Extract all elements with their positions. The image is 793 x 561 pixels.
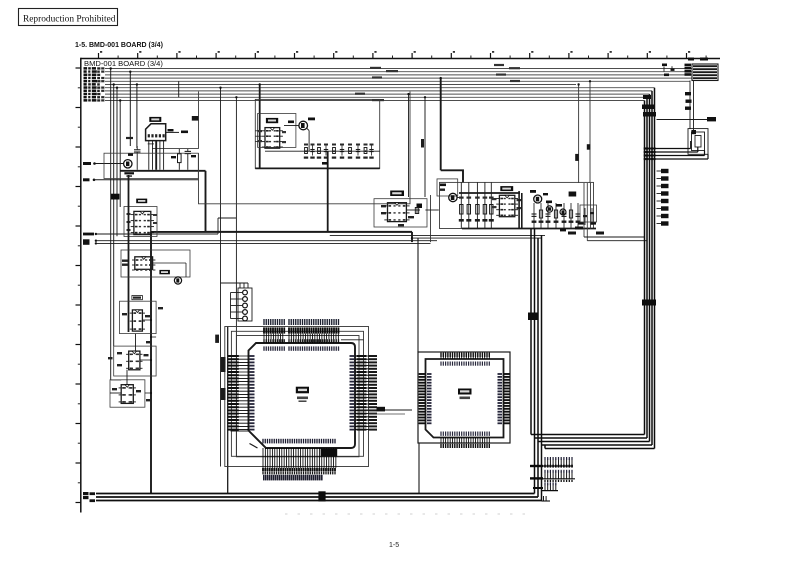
IC103 (135, 257, 153, 270)
mid bus wire (412, 237, 542, 239)
nested box feed wires (645, 148, 691, 150)
IC201 bottom net names (263, 475, 265, 481)
wire drop to X101 (129, 72, 131, 146)
rotated net label (215, 335, 219, 343)
IC201 bottom pin labels (262, 471, 263, 474)
wire across top pins (341, 339, 364, 341)
sub-circuit box A outline (255, 99, 379, 168)
top ruler ticks (98, 53, 100, 59)
IC106 labels (117, 352, 122, 354)
box around bias network (104, 153, 198, 178)
IC105 labels (122, 313, 127, 315)
heavy rail link (151, 231, 206, 233)
analog out wires to bus bundle (584, 236, 645, 238)
Q301 emitter wire (307, 129, 309, 131)
IC201 left inner pin numbers (250, 355, 255, 357)
IC103 labels (122, 260, 128, 262)
IC501 right inner pin numbers (498, 373, 503, 375)
IC501 right pin labels (504, 373, 510, 375)
wire drop to transistor Q101 (116, 88, 118, 237)
IC501 top pin labels (440, 353, 441, 357)
IC301 label (266, 118, 278, 123)
box C right verticals (583, 183, 585, 237)
IC201 outer left labels (221, 357, 226, 372)
resistor R103 (178, 154, 182, 163)
right bus bundle (644, 101, 646, 435)
IC107 (121, 385, 133, 404)
analog block parts (533, 203, 535, 229)
heavy rail drop left chain (150, 232, 152, 494)
transistor Q301 (299, 121, 308, 130)
IC201 right inner pin numbers (350, 355, 355, 357)
heavy drop from IC102 (128, 175, 130, 332)
IC201 left pin labels (228, 355, 239, 357)
termination nested boxes (688, 129, 708, 155)
resistor ladder (460, 182, 462, 228)
IC201 center label (296, 387, 309, 394)
ground bar Q101 (124, 172, 134, 174)
IC201 top pin pads band (263, 327, 265, 333)
pin header J803 (542, 490, 559, 492)
IC201 right pins (355, 355, 377, 357)
capacitor C101 (134, 149, 141, 151)
IC501 left pins (419, 373, 426, 375)
top signal bus wires (105, 68, 692, 70)
IC301 (265, 128, 280, 149)
heavy bus drop (440, 78, 442, 170)
short bus stub (178, 81, 180, 97)
heavy pair under IC402 (518, 191, 520, 229)
IC102 (134, 211, 151, 234)
box A heavy ground edge (255, 167, 379, 169)
left edge connector wire A (83, 233, 94, 236)
IC107 labels (112, 388, 117, 390)
wire drop two (408, 94, 410, 197)
IC201 top inner pin numbers (263, 346, 264, 350)
pin header J802 (542, 478, 576, 480)
IC201 right exit wire (359, 409, 412, 411)
wire drop to IC401 (424, 97, 426, 197)
wire IC401 to box C (425, 209, 438, 211)
IC201 top pins group2 (288, 334, 290, 343)
IC401 box outline (374, 199, 427, 227)
IC105 label (132, 296, 143, 300)
left chain extra blobs (158, 307, 163, 309)
connector CN201 circles (243, 290, 248, 295)
wire to bottom bus along IC201 (227, 327, 229, 494)
IC201 right pin labels (357, 355, 367, 357)
left edge connector CN103 (83, 178, 90, 181)
box C heavy bottom rail (462, 228, 596, 230)
diode D401 (417, 204, 423, 209)
wire drop (235, 97, 237, 456)
junction dots left chain (150, 319, 152, 321)
label B (691, 130, 696, 134)
heavy net vertical (327, 151, 329, 232)
connector CN201 box (238, 288, 252, 321)
left chain box 1 (124, 207, 157, 237)
inter-IC wires (135, 334, 137, 352)
transistor Q401 (449, 193, 457, 201)
net label (192, 116, 199, 121)
board frame top border (81, 58, 721, 60)
left chain connect wires (111, 379, 122, 381)
IC501 center sublabel (460, 397, 471, 400)
IC101 regulator body (146, 124, 166, 141)
connector drop wires (689, 81, 691, 129)
CN201 stub wires (230, 293, 232, 319)
IC201 routing box inner (236, 336, 359, 457)
IC501 right pins (504, 373, 511, 375)
IC501 top pins (440, 352, 442, 359)
heavy horizontal rail (206, 231, 413, 233)
IC501 bottom pins (440, 438, 442, 444)
sub-circuit box B outline (198, 92, 200, 149)
svg-text:1-5. BMD-001 BOARD (3/4): 1-5. BMD-001 BOARD (3/4) (75, 42, 163, 49)
svg-text:Reproduction Prohibited: Reproduction Prohibited (23, 15, 116, 25)
wire drop (589, 81, 591, 183)
IC501 center label (458, 389, 472, 395)
heavy ground rail (120, 170, 205, 172)
wire drop (119, 101, 121, 208)
left edge connector wire C (83, 242, 90, 245)
bus net name labels mid (370, 67, 381, 69)
label TP101 (126, 137, 133, 139)
RC filter components (305, 148, 308, 154)
bundle labels (643, 95, 651, 99)
IC402 label (500, 186, 513, 191)
wire below chamfer (231, 430, 249, 432)
scan artifact dashes (285, 513, 535, 515)
IC104 label (159, 270, 170, 274)
reproduction-prohibited stamp (19, 9, 118, 26)
board frame left border (80, 58, 82, 513)
extra parts right (584, 208, 586, 225)
IC501 body (426, 359, 504, 438)
IC501 left inner pin numbers (427, 373, 432, 375)
transistor Q402 (534, 195, 542, 203)
IC401 side parts (406, 209, 420, 211)
IC501 outer routing rect (418, 352, 510, 443)
heavy node rail (459, 192, 520, 194)
IC201 right outer labels (369, 355, 378, 357)
IC402 pin labels (492, 198, 497, 200)
bundle pin ladder (657, 170, 662, 172)
svg-text:BMD-001 BOARD (3/4): BMD-001 BOARD (3/4) (84, 59, 163, 68)
transistor Q101 (124, 160, 132, 168)
wire drop (113, 85, 115, 347)
IC201 bottom pin pads row (262, 468, 264, 471)
IC401 label (390, 191, 404, 197)
mid bundle junction label (528, 313, 538, 321)
box A inner box (258, 114, 296, 148)
left chain box 4 (114, 346, 156, 376)
header junction squares (530, 465, 543, 467)
IC201 corner black mark (321, 449, 338, 457)
mid bus bundle (530, 229, 532, 435)
svg-text:1-5: 1-5 (389, 542, 399, 549)
IC201 top pin names (263, 319, 264, 325)
IC102 label (136, 199, 147, 204)
pin header J804 (543, 496, 545, 501)
IC201 routing box outer (225, 327, 369, 467)
transistor Q102 (174, 277, 181, 284)
IC101 output wire (166, 131, 179, 133)
net label right (657, 119, 708, 121)
IC101 label (149, 117, 161, 122)
bottom bus wires (96, 493, 535, 495)
wire drop (136, 85, 138, 149)
wire drop to analog block (578, 85, 580, 184)
bottom bus junction label (318, 491, 325, 501)
transistor box (437, 179, 458, 196)
IC501 bottom inner pin numbers (440, 432, 441, 436)
junction labels (111, 194, 119, 200)
bundle elbow to mid bundle (531, 434, 645, 436)
connector CN801 (692, 64, 718, 81)
IC201 bottom pins (262, 448, 264, 468)
mid bus wire (330, 234, 545, 236)
IC201 chamfer inner line (250, 444, 258, 449)
IC201 top pin pads (263, 339, 264, 342)
analog block box C outline (440, 182, 594, 228)
wire drop to IC201 box (220, 88, 222, 467)
heavy supply drop (259, 85, 261, 169)
IC501 top inner pin numbers (440, 362, 441, 366)
connector pin labels (685, 92, 691, 95)
bottom bus labels left (83, 492, 89, 495)
IC102 pin blobs (127, 213, 131, 215)
electrolytic caps (546, 206, 552, 212)
IC501 bottom pin labels (440, 444, 441, 448)
IC106 (129, 351, 140, 370)
IC101 pins (148, 134, 150, 137)
IC201 top pins group1 (263, 334, 265, 343)
net label (322, 162, 328, 165)
IC201 center sublabel (297, 397, 308, 400)
left ruler ticks (76, 67, 81, 69)
IC201 body (249, 343, 356, 448)
heavy entry elbow (441, 170, 463, 182)
IC201 bottom inner pin numbers (262, 439, 263, 444)
heavy rail drop right (411, 232, 413, 242)
capacitor C102 (185, 150, 191, 152)
left chain box 5 (110, 380, 145, 407)
left edge connector wire B (83, 239, 90, 242)
pin header J801 (542, 465, 574, 467)
net label vertical (421, 139, 424, 148)
sub box right (580, 205, 597, 222)
left edge connector CN102 (83, 162, 91, 165)
IC501 ground wire (418, 443, 420, 494)
IC105 (132, 310, 142, 331)
IC401 (388, 203, 407, 222)
IC201 left pins (228, 355, 249, 357)
IC501 feed wire top (417, 238, 419, 352)
left chain box 3 (120, 301, 157, 333)
IC501 left pin labels (419, 373, 425, 375)
cap bottom labels (568, 232, 576, 235)
wire drop to regulator block (110, 69, 112, 381)
CN801 pin labels (685, 64, 692, 67)
bus wire labels left (84, 67, 88, 70)
IC201 routing box mid (231, 331, 363, 456)
box B outer right edge (430, 195, 432, 242)
left chain box 2 (121, 250, 190, 277)
IC402 (499, 195, 514, 216)
part labels (546, 201, 552, 204)
bundle junction label (642, 300, 656, 306)
IC301 pin labels (258, 130, 262, 132)
RC filter row wire (265, 150, 380, 152)
